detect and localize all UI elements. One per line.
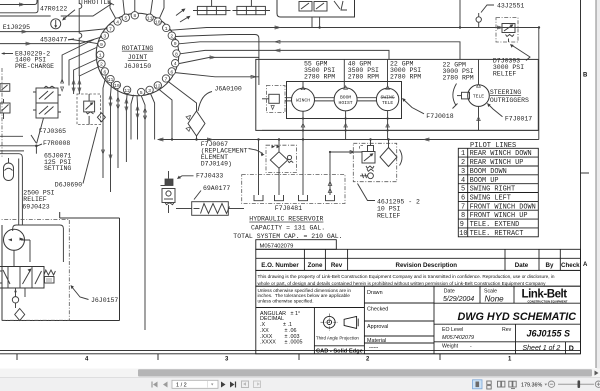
zone number 1 bbox=[508, 357, 512, 363]
svg-text:JOINT: JOINT bbox=[128, 54, 148, 61]
pump gearbox inner box bbox=[287, 82, 402, 119]
horizontal scrollbar thumb bbox=[138, 369, 592, 376]
check valve J6A0100 bbox=[186, 111, 205, 140]
svg-text:SWING RIGHT: SWING RIGHT bbox=[470, 186, 515, 194]
joint lower-left wires to relief valves bbox=[62, 40, 99, 95]
wire port 8 top bbox=[134, 0, 136, 12]
svg-text:3: 3 bbox=[103, 34, 106, 40]
svg-text:1: 1 bbox=[165, 26, 168, 32]
svg-text:unless otherwise specified.: unless otherwise specified. bbox=[258, 298, 314, 303]
svg-text:REAR WINCH DOWN: REAR WINCH DOWN bbox=[470, 150, 532, 158]
svg-text:8: 8 bbox=[461, 212, 465, 220]
joint bottom wires to lower manifold bbox=[103, 75, 172, 330]
CAD note cell bbox=[314, 346, 364, 355]
svg-text:Rev: Rev bbox=[331, 262, 343, 269]
label D6J0690 bbox=[55, 127, 98, 189]
pump P2 BOOM HOIST bbox=[334, 86, 357, 111]
svg-text:2: 2 bbox=[461, 159, 465, 167]
svg-text:9: 9 bbox=[100, 42, 103, 48]
svg-text:ROTATING: ROTATING bbox=[122, 45, 153, 52]
toolbar zoom out button bbox=[548, 381, 554, 387]
svg-text:RELIEF: RELIEF bbox=[493, 71, 517, 78]
svg-text:1: 1 bbox=[99, 53, 102, 59]
weight sheet row bbox=[434, 342, 581, 354]
label J6A0100 bbox=[198, 86, 242, 112]
revision table grid bbox=[256, 249, 581, 270]
toolbar continuous page icon bbox=[487, 381, 491, 389]
wire to port 3 left bbox=[0, 37, 102, 45]
svg-text:69A0177: 69A0177 bbox=[203, 185, 230, 192]
wire to port 9 left bbox=[68, 40, 98, 44]
svg-text:2780 RPM: 2780 RPM bbox=[348, 74, 379, 81]
svg-text:± .0005: ± .0005 bbox=[285, 340, 303, 346]
svg-text:SETTING: SETTING bbox=[44, 165, 71, 172]
zone letter A bbox=[583, 262, 588, 268]
horizontal scrollbar track bbox=[0, 369, 600, 378]
svg-text:BOOM DOWN: BOOM DOWN bbox=[470, 168, 507, 176]
svg-text:This drawing is the property o: This drawing is the property of Link-Bel… bbox=[258, 274, 555, 279]
svg-text:4530477: 4530477 bbox=[40, 37, 67, 44]
sheet bottom border lines bbox=[0, 350, 581, 353]
return filter F7J0067 bbox=[266, 140, 297, 196]
accumulator E8J0229 bbox=[4, 158, 14, 181]
toolbar zoom percent text bbox=[521, 382, 547, 388]
pump drain header bbox=[262, 129, 538, 131]
svg-text:3: 3 bbox=[461, 168, 465, 176]
svg-text:Drawn: Drawn bbox=[367, 290, 383, 296]
wire port 7 to check valve J6A0100 bbox=[169, 82, 197, 111]
svg-text:Date: Date bbox=[515, 262, 529, 269]
svg-text:4: 4 bbox=[461, 177, 465, 185]
svg-text:2780 RPM: 2780 RPM bbox=[304, 74, 335, 81]
top pilot manifold box bbox=[277, 0, 355, 28]
check ball diamond near 65J0071 bbox=[97, 113, 105, 122]
relief valve 65J0071 dashed enclosure bbox=[77, 94, 100, 125]
viewer toolbar background bbox=[0, 378, 600, 391]
wire port 11 top bbox=[151, 0, 153, 14]
svg-text:69J0423: 69J0423 bbox=[22, 204, 49, 211]
svg-text:RELIEF: RELIEF bbox=[23, 196, 47, 203]
svg-text:TELE: TELE bbox=[382, 100, 393, 106]
svg-text:2780 RPM: 2780 RPM bbox=[390, 74, 421, 81]
left enclosure dashed boundary bbox=[1, 68, 3, 158]
toolbar previous view icon bbox=[242, 381, 249, 388]
svg-text:D7J0149): D7J0149) bbox=[201, 160, 232, 167]
pilot lines table grid bbox=[458, 148, 538, 237]
svg-text:E1J0295: E1J0295 bbox=[3, 24, 30, 31]
svg-text:E.O. Number: E.O. Number bbox=[261, 262, 299, 269]
label F7J0365 bbox=[39, 128, 66, 135]
label F7J0481 bbox=[275, 205, 302, 212]
svg-text:Rev: Rev bbox=[502, 327, 512, 333]
valve F7J0365 bbox=[33, 86, 61, 118]
zone letter B bbox=[583, 73, 588, 79]
svg-text:9: 9 bbox=[174, 41, 177, 47]
svg-text:4: 4 bbox=[85, 357, 89, 363]
pump flow text column 3 bbox=[390, 61, 421, 81]
pump P1 WINCH bbox=[292, 86, 315, 111]
svg-text:Checked: Checked bbox=[367, 307, 388, 313]
svg-text:9: 9 bbox=[460, 221, 464, 229]
wire port 2 to pump bus bbox=[175, 35, 259, 86]
svg-text:CAPACITY = 131 GAL.: CAPACITY = 131 GAL. bbox=[251, 225, 325, 232]
svg-text:6: 6 bbox=[103, 69, 106, 75]
reservoir suction drop 3 bbox=[299, 140, 308, 201]
directional valve bank J6J0157 bbox=[0, 267, 44, 289]
drawn checked approval material rows bbox=[364, 290, 434, 350]
svg-text:J6A0100: J6A0100 bbox=[215, 86, 242, 93]
toolbar next view icon bbox=[254, 381, 261, 388]
svg-text:Revision Description: Revision Description bbox=[396, 262, 458, 269]
rotating joint ports ring bbox=[97, 12, 181, 96]
svg-text:8: 8 bbox=[133, 13, 136, 19]
flow arrow pairs on drop lines bbox=[61, 79, 147, 159]
left edge component lower bbox=[0, 99, 10, 119]
pump drain drops bbox=[301, 106, 480, 139]
wire port 1 to top manifold bbox=[170, 26, 541, 30]
svg-text:DWG HYD SCHEMATIC: DWG HYD SCHEMATIC bbox=[458, 311, 577, 323]
wire top edge y4.5 bbox=[0, 0, 37, 6]
svg-text:F7R0008: F7R0008 bbox=[43, 140, 70, 147]
toolbar zoom in button partial bbox=[595, 381, 600, 387]
valve bank springs bbox=[44, 270, 55, 283]
svg-text:179.36%: 179.36% bbox=[521, 382, 542, 388]
svg-text:TELE. RETRACT: TELE. RETRACT bbox=[470, 230, 524, 238]
toolbar prev page button bbox=[163, 382, 168, 388]
reservoir suction drop 1 bbox=[254, 140, 263, 201]
svg-text:Check: Check bbox=[561, 262, 580, 269]
svg-text:5: 5 bbox=[461, 186, 465, 194]
pressure gauge bbox=[51, 19, 61, 29]
svg-text:------: ------ bbox=[369, 345, 379, 350]
svg-text:PRE-CHARGE: PRE-CHARGE bbox=[15, 63, 54, 70]
label F7J0018 bbox=[402, 98, 454, 120]
svg-text:5: 5 bbox=[140, 90, 143, 96]
label E1J0295 bbox=[3, 24, 30, 31]
svg-text:F7J0017: F7J0017 bbox=[505, 116, 532, 123]
pump P4 TELE steering bbox=[453, 84, 490, 109]
tolerance note cell bbox=[256, 288, 365, 308]
svg-text:Sheet 1 of 2: Sheet 1 of 2 bbox=[523, 345, 561, 352]
svg-text:F7J0018: F7J0018 bbox=[426, 113, 453, 120]
svg-text:10: 10 bbox=[114, 83, 120, 89]
svg-text:EO Level: EO Level bbox=[442, 327, 463, 333]
arrows northeast of joint bbox=[176, 9, 191, 23]
title block outer frame bbox=[256, 286, 581, 354]
pump flow text column 2 bbox=[348, 61, 379, 81]
label hydraulic reservoir capacity bbox=[233, 216, 342, 241]
svg-text:J6J0155 S: J6J0155 S bbox=[527, 329, 571, 339]
svg-text:B: B bbox=[583, 73, 588, 79]
svg-text:CAD - Solid Edge: CAD - Solid Edge bbox=[316, 349, 363, 355]
label 47R0122 bbox=[40, 5, 75, 20]
svg-text:SWING LEFT: SWING LEFT bbox=[470, 195, 511, 203]
svg-text:TELE: TELE bbox=[473, 94, 484, 100]
svg-text:6: 6 bbox=[461, 195, 465, 203]
zone number 4 bbox=[85, 357, 89, 363]
lower-left enclosure frame bbox=[2, 212, 120, 321]
label D7J0393 3000 psi relief bbox=[493, 44, 530, 78]
label J6J0157 bbox=[71, 285, 119, 304]
svg-text:Zone: Zone bbox=[308, 262, 323, 269]
revision table header text bbox=[261, 262, 580, 269]
svg-text:7: 7 bbox=[109, 26, 112, 32]
valve F7J0433 bbox=[161, 171, 176, 213]
svg-text:J6J0150: J6J0150 bbox=[124, 63, 151, 70]
relief valve 46J1295 bbox=[330, 140, 402, 182]
left edge component upper bbox=[0, 84, 10, 92]
svg-text:CONSTRUCTION EQUIPMENT: CONSTRUCTION EQUIPMENT bbox=[528, 299, 568, 303]
drawing title DWG HYD SCHEMATIC bbox=[458, 311, 577, 323]
svg-text:1 / 2: 1 / 2 bbox=[176, 382, 187, 388]
toolbar page number field bbox=[172, 380, 218, 388]
wire to throttle y16 bbox=[0, 4, 112, 17]
reservoir suction drop 2 bbox=[275, 195, 284, 201]
svg-text:7: 7 bbox=[165, 76, 168, 82]
wire port 4 top bbox=[110, 0, 116, 18]
svg-text:M057402079: M057402079 bbox=[260, 243, 294, 249]
pump station outer enclosure bbox=[256, 59, 539, 130]
label 69A0177 bbox=[194, 185, 230, 200]
disclaimer paragraph bbox=[256, 270, 581, 286]
svg-text:3: 3 bbox=[148, 88, 151, 94]
svg-text:2780 RPM: 2780 RPM bbox=[443, 75, 474, 82]
svg-text:46J1295 - 2: 46J1295 - 2 bbox=[377, 198, 420, 205]
svg-text:Date: Date bbox=[444, 289, 455, 295]
right riser wire bbox=[538, 28, 540, 140]
zone tick between B and A bbox=[581, 172, 590, 174]
svg-text:FRONT WINCH UP: FRONT WINCH UP bbox=[470, 212, 528, 220]
svg-text:2: 2 bbox=[170, 34, 173, 40]
pump flow text column 4 bbox=[443, 62, 474, 82]
date scale logo row bbox=[434, 286, 581, 303]
sheet paper right edge bbox=[596, 0, 600, 369]
svg-text:HYDRAULIC RESERVOIR: HYDRAULIC RESERVOIR bbox=[249, 216, 323, 223]
charge pump loop bbox=[13, 225, 64, 267]
label F7J0433 bbox=[177, 172, 223, 179]
svg-text:RELIEF: RELIEF bbox=[377, 213, 401, 220]
top pilot valve pair 1 bbox=[193, 0, 231, 15]
label F7J0017 bbox=[487, 103, 532, 123]
drain check diamond bbox=[15, 288, 25, 321]
toolbar zoom slider bbox=[558, 380, 594, 388]
wire port 5 top bbox=[123, 0, 125, 14]
pilot lines table title bbox=[470, 142, 516, 150]
label THROTTLE bbox=[80, 0, 114, 6]
reservoir return drop with check arrows bbox=[326, 151, 335, 201]
svg-text:TOTAL SYSTEM CAP. = 210 GAL.: TOTAL SYSTEM CAP. = 210 GAL. bbox=[233, 233, 342, 240]
toolbar last page button bbox=[230, 382, 236, 388]
label STEERING OUTRIGGERS bbox=[490, 89, 529, 104]
label 43J2551 bbox=[481, 2, 524, 12]
svg-text:F7J0481: F7J0481 bbox=[275, 205, 302, 212]
main return bus wire bbox=[158, 138, 539, 141]
svg-text:11: 11 bbox=[147, 16, 153, 22]
Link-Belt logo bbox=[522, 288, 568, 304]
label 46J1295 10 psi relief bbox=[358, 184, 421, 220]
svg-text:D: D bbox=[569, 345, 574, 352]
label E8J0229-2 pre-charge bbox=[1, 50, 54, 70]
svg-text:THROTTLE: THROTTLE bbox=[80, 0, 111, 6]
svg-text:OUTRIGGERS: OUTRIGGERS bbox=[490, 97, 529, 104]
svg-text:PILOT LINES: PILOT LINES bbox=[470, 142, 516, 150]
wire port 10 top bbox=[160, 0, 165, 18]
svg-text:FRONT WINCH DOWN: FRONT WINCH DOWN bbox=[470, 203, 536, 211]
EO number stamp cell M057402079 bbox=[256, 240, 336, 250]
third angle projection cell bbox=[314, 308, 359, 354]
svg-text:1: 1 bbox=[508, 357, 512, 363]
pump P3 SWING TELE bbox=[376, 86, 398, 111]
toolbar next page button bbox=[221, 382, 226, 388]
svg-text:Material: Material bbox=[367, 338, 386, 344]
svg-text:-: - bbox=[470, 344, 472, 350]
label 65J0071 setting bbox=[44, 153, 71, 173]
svg-text:J6J0157: J6J0157 bbox=[91, 297, 118, 304]
tolerance values bbox=[260, 311, 302, 346]
svg-text:10: 10 bbox=[155, 19, 161, 25]
svg-text:43J2551: 43J2551 bbox=[497, 2, 524, 9]
svg-text:4: 4 bbox=[174, 61, 177, 67]
wire to port 7 left bbox=[0, 29, 107, 33]
svg-text:HOIST: HOIST bbox=[339, 100, 353, 106]
svg-text:8: 8 bbox=[175, 51, 178, 57]
drain circle bbox=[12, 288, 18, 308]
svg-text:.XXXX: .XXXX bbox=[260, 340, 276, 346]
svg-text:6: 6 bbox=[170, 69, 173, 75]
svg-text:5: 5 bbox=[124, 16, 127, 22]
label 2500 PSI relief 69J0423 bbox=[22, 190, 54, 211]
toolbar first page button bbox=[152, 382, 158, 388]
svg-text:1: 1 bbox=[461, 150, 465, 158]
svg-text:REAR WINCH UP: REAR WINCH UP bbox=[470, 159, 524, 167]
svg-text:5/29/2004: 5/29/2004 bbox=[443, 296, 474, 303]
svg-text:By: By bbox=[546, 262, 554, 269]
sheet right border line bbox=[580, 0, 582, 354]
reservoir enclosure bbox=[242, 175, 345, 204]
svg-text:7: 7 bbox=[461, 203, 465, 211]
wire port 9 right bbox=[179, 40, 460, 59]
svg-text:A: A bbox=[583, 262, 588, 268]
zone number 3 bbox=[225, 357, 229, 363]
svg-text:12: 12 bbox=[124, 88, 130, 94]
label F7J0067 replacement element bbox=[201, 141, 265, 168]
svg-text:2: 2 bbox=[366, 357, 370, 363]
svg-text:BOOM: BOOM bbox=[340, 94, 351, 100]
engine coupler bbox=[262, 86, 285, 113]
wire top edge y12.8 bbox=[0, 0, 38, 13]
svg-text:Weight: Weight bbox=[442, 344, 459, 350]
J6J0157 dashed enclosure bbox=[0, 220, 69, 321]
wire port 6 right bbox=[175, 73, 259, 79]
zone number 2 bbox=[366, 357, 370, 363]
top pilot valve pair 2 bbox=[233, 0, 271, 15]
wire port 4 right bbox=[179, 56, 259, 64]
label F7R0008 bbox=[35, 140, 70, 147]
svg-text:D6J0690: D6J0690 bbox=[55, 182, 82, 189]
pressure tap 43J2551 bbox=[460, 0, 481, 28]
toolbar two page icon bbox=[498, 381, 505, 387]
svg-text:F7J0433: F7J0433 bbox=[196, 172, 223, 179]
column divider lines bbox=[303, 59, 479, 87]
svg-text:WINCH: WINCH bbox=[296, 98, 310, 104]
svg-text:10 PSI: 10 PSI bbox=[377, 206, 401, 213]
wire port 8 right bbox=[180, 49, 389, 60]
solenoid 69A0177 bbox=[176, 202, 244, 216]
svg-text:STEERING: STEERING bbox=[490, 89, 521, 96]
svg-text:TELE. EXTEND: TELE. EXTEND bbox=[470, 221, 520, 229]
drawing number J6J0155 S bbox=[527, 329, 571, 339]
hop-over wire vertical x79 bbox=[79, 0, 82, 76]
svg-text:BOOM UP: BOOM UP bbox=[470, 177, 499, 185]
label 4530477 bbox=[40, 37, 74, 44]
rotating joint J6J0150 body bbox=[96, 13, 179, 96]
EO level row bbox=[434, 324, 581, 354]
svg-text:10: 10 bbox=[459, 230, 467, 238]
pilot lines table rows text bbox=[459, 150, 536, 238]
svg-text:3: 3 bbox=[225, 357, 229, 363]
svg-text:None: None bbox=[485, 295, 505, 304]
svg-text:Approval: Approval bbox=[367, 324, 388, 330]
zone tick marks bottom bbox=[17, 354, 440, 360]
svg-text:M057402079: M057402079 bbox=[442, 335, 474, 341]
svg-text:4: 4 bbox=[116, 19, 119, 25]
svg-text:12: 12 bbox=[155, 83, 161, 89]
toolbar single page mode icon (active) bbox=[473, 380, 483, 389]
svg-text:11: 11 bbox=[108, 77, 114, 83]
svg-text:F7J0365: F7J0365 bbox=[39, 128, 66, 135]
svg-text:Third Angle Projection: Third Angle Projection bbox=[316, 336, 360, 341]
pump flow text column 1 bbox=[304, 61, 335, 81]
charge pump motor circle bbox=[4, 229, 25, 250]
svg-text:whole or part, of design and d: whole or part, of design and details con… bbox=[258, 281, 547, 286]
toolbar two page scroll icon bbox=[509, 381, 516, 388]
scrollbar right arrow bbox=[595, 371, 599, 376]
svg-text:47R0122: 47R0122 bbox=[40, 5, 67, 12]
relief valve D7J0393 bbox=[496, 18, 518, 42]
wire left manifold bbox=[0, 118, 44, 225]
svg-text:SWING: SWING bbox=[381, 94, 395, 100]
svg-text:2: 2 bbox=[100, 62, 103, 68]
pump drive shafts bbox=[285, 98, 377, 101]
